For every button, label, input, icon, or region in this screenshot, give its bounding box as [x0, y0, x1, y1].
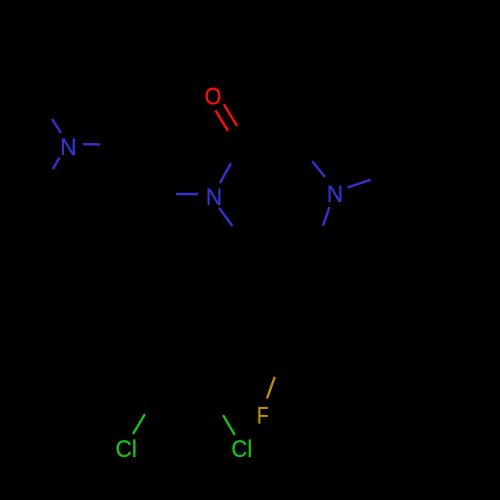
carbonyl C=O double bond [215, 104, 243, 142]
bond N4-C3 [296, 139, 325, 177]
bond C2-C3 [242, 139, 296, 142]
bond C-F [267, 351, 283, 398]
svg-text:N: N [206, 183, 222, 210]
bond N4-C5 [314, 207, 329, 248]
bond C5-C6 [245, 246, 314, 248]
bond Na-CH2a chain [83, 144, 123, 145]
benzene ring [152, 308, 283, 391]
bond N1-CH2b chain [151, 193, 198, 194]
bond N4-CH3 [348, 171, 395, 188]
svg-text:N: N [60, 133, 76, 160]
svg-text:F: F [257, 401, 269, 429]
bond N1-C6 [219, 208, 245, 246]
bond Na-CH3 lower [43, 158, 59, 184]
bond CH2a-CH2b [123, 145, 151, 193]
bond C-Cl2 [210, 393, 235, 435]
svg-text:N: N [327, 180, 343, 207]
svg-text:O: O [205, 82, 222, 109]
svg-text:Cl: Cl [116, 435, 137, 462]
bond N1-C2 [220, 142, 242, 183]
bond C6-ipso [232, 246, 245, 308]
bond Na-CH3 upper [42, 101, 61, 133]
bond C-Cl1 [133, 391, 158, 434]
svg-text:Cl: Cl [231, 435, 252, 462]
